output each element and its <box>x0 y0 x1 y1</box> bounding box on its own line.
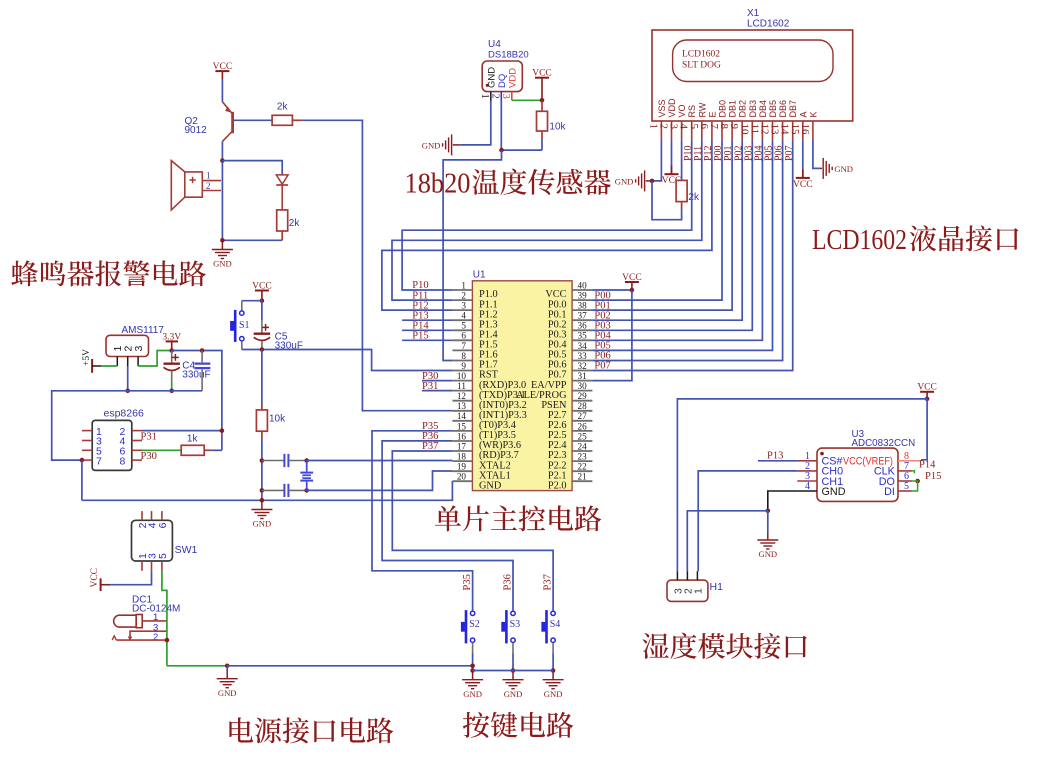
svg-text:GND: GND <box>213 259 232 269</box>
connector H1 box <box>667 580 708 601</box>
switch S4 <box>545 610 548 643</box>
wire GND rail (regulator) <box>52 391 202 460</box>
node ADC VCC junction <box>925 397 930 402</box>
connector DC1 barrel <box>114 615 137 627</box>
svg-text:2k: 2k <box>277 102 289 113</box>
U1 pin 10 stub <box>452 380 472 382</box>
svg-text:VCC: VCC <box>213 62 233 72</box>
svg-text:1k: 1k <box>187 434 199 445</box>
svg-text:S4: S4 <box>550 619 561 630</box>
U4 pin 3 stub <box>511 92 513 101</box>
title 按键电路 <box>463 712 490 738</box>
wire S2 to GND rail <box>472 643 474 654</box>
SW1 pin 2 stub (top) <box>141 511 143 520</box>
wire RST net to U1 pin 9 <box>242 350 453 371</box>
GND stem (U4) <box>453 144 459 146</box>
diode D1 <box>276 175 288 184</box>
svg-text:26: 26 <box>578 421 588 431</box>
svg-text:15: 15 <box>457 421 467 431</box>
node C4 GND junction <box>169 389 174 394</box>
svg-text:35: 35 <box>578 331 588 341</box>
node XTAL cap2 left junction <box>260 488 265 493</box>
svg-text:E: E <box>707 111 717 117</box>
svg-text:P14: P14 <box>919 460 936 471</box>
wire H1 pin2 to GND node <box>687 511 768 571</box>
svg-text:22: 22 <box>578 462 588 472</box>
wire R-2k bottom to GND rail <box>222 239 282 241</box>
U1 pin 14 stub <box>452 420 472 422</box>
wire U4 DQ down <box>500 101 502 150</box>
U1 pin 12 stub <box>452 400 472 402</box>
svg-text:2k: 2k <box>688 192 700 203</box>
U1 pin 8 stub <box>452 360 472 362</box>
wire Q2 collector down <box>221 141 223 160</box>
svg-text:GND: GND <box>504 689 523 699</box>
X1 pin 12 stub <box>772 121 774 140</box>
U1 pin 17 stub <box>452 450 472 452</box>
switch S2 <box>465 610 468 643</box>
svg-text:20: 20 <box>457 472 467 482</box>
ground GND (ADC) <box>767 531 769 540</box>
wire esp pin 7 to GND rail <box>81 460 83 500</box>
resistor 1k <box>180 449 182 451</box>
svg-text:GND: GND <box>463 689 482 699</box>
DC1 pin 1 stub <box>142 620 166 622</box>
X1 pin 16 stub <box>812 121 814 140</box>
power symbol VCC (ADC) <box>920 391 934 393</box>
svg-text:LCD1602: LCD1602 <box>747 19 790 30</box>
svg-text:LCD1602: LCD1602 <box>682 50 720 60</box>
wire pin 3 to 3.3V node <box>138 351 172 367</box>
node LCD VSS junction <box>650 179 655 184</box>
AMS1117 pin 1 stub <box>116 357 118 367</box>
svg-text:VCC: VCC <box>532 69 552 79</box>
U1 pin 33 stub <box>572 360 592 362</box>
power symbol VCC (rotated, SW1) <box>100 578 102 591</box>
svg-text:32: 32 <box>578 361 588 371</box>
svg-text:3.3V: 3.3V <box>162 332 181 342</box>
svg-text:33: 33 <box>578 351 588 361</box>
wire CLK green stub <box>912 471 915 474</box>
wire U3 GND down <box>768 491 798 511</box>
esp8266 pin 6 stub <box>132 449 142 451</box>
U3 pin 5 stub <box>898 490 912 492</box>
svg-text:2k: 2k <box>289 218 301 229</box>
svg-text:VSS: VSS <box>657 99 667 117</box>
esp8266 pin 3 stub <box>82 440 92 442</box>
wire P12 LCD to U1 <box>382 140 712 310</box>
wire X1 A to VCC <box>802 140 804 178</box>
svg-text:H1: H1 <box>710 581 724 593</box>
node DQ junction <box>499 148 504 153</box>
svg-text:VCC: VCC <box>622 273 642 283</box>
svg-text:DQ: DQ <box>497 74 508 88</box>
wire CH0 to H1 pin1 <box>698 471 797 571</box>
svg-text:2: 2 <box>461 291 466 301</box>
U3 pin1 indicator dot <box>820 452 824 456</box>
svg-text:S2: S2 <box>469 619 480 630</box>
svg-text:LCD1602: LCD1602 <box>812 225 907 256</box>
U3 pin 1 stub <box>797 460 817 462</box>
svg-text:P37: P37 <box>422 441 438 452</box>
U1 pin 39 stub <box>572 299 592 301</box>
SW1 pin 4 stub (top) <box>151 511 153 520</box>
wire esp pin 6 to 1k <box>142 449 181 451</box>
U1 pin 26 stub <box>572 430 592 432</box>
svg-text:GND: GND <box>544 689 563 699</box>
svg-text:GND: GND <box>758 549 777 559</box>
wire P02 U1 to LCD <box>592 140 742 320</box>
svg-text:RS: RS <box>687 105 697 118</box>
SW1 pin 5 stub (bottom) <box>161 561 163 571</box>
capacitor ceramic (3.3V decoupling) <box>201 351 203 363</box>
svg-text:9012: 9012 <box>185 125 208 136</box>
svg-text:K: K <box>808 111 818 117</box>
sensor U4 DS18B20 box <box>482 61 522 92</box>
svg-text:U1: U1 <box>473 270 486 281</box>
X1 pin 9 stub <box>741 121 743 140</box>
node U1 VCC junction <box>630 288 635 293</box>
wire GND rail (crystal) <box>82 481 453 500</box>
X1 pin 14 stub <box>792 121 794 140</box>
U1 pin 15 stub <box>452 430 472 432</box>
wire 3.3V rail to esp8266 <box>172 351 222 451</box>
svg-text:30: 30 <box>578 381 588 391</box>
node esp pin7 junction <box>80 458 85 463</box>
wire S4 to GND rail <box>552 643 554 654</box>
U1 pin 34 stub <box>572 349 592 351</box>
wire P00 U1 to LCD <box>592 140 722 300</box>
ground GND (S4) <box>552 671 554 680</box>
wire pin 2 to GND rail <box>127 366 129 391</box>
wire P11 LCD to U1 <box>392 140 702 300</box>
power symbol 3.3V <box>171 341 173 350</box>
ground GND (LCD VSS, rotated) <box>644 170 646 191</box>
U3 pin 2 stub <box>797 470 817 472</box>
wire esp pin 2 to 3.3V <box>142 430 222 432</box>
wire X1 K to GND <box>813 140 820 168</box>
title 电源接口电路 <box>229 717 253 742</box>
svg-text:37: 37 <box>578 311 588 321</box>
wire XTAL1 to U1 pin 19 <box>307 471 453 490</box>
H1 pin 1 stub <box>696 571 698 580</box>
U1 pin 7 stub <box>452 349 472 351</box>
svg-text:VDD: VDD <box>667 98 677 118</box>
X1 pin 11 stub <box>761 121 763 140</box>
svg-text:GND: GND <box>479 480 502 491</box>
node crystal GND junction <box>260 498 265 503</box>
svg-text:16: 16 <box>457 431 467 441</box>
X1 pin 4 stub <box>691 121 693 140</box>
ground GND (S3) <box>512 671 514 680</box>
capacitor XC1 (XTAL load) <box>262 460 284 462</box>
U1 pin 40 stub <box>572 289 592 291</box>
ground GND (crystal) <box>261 500 263 509</box>
node S4 GND junction <box>551 668 556 673</box>
svg-text:7: 7 <box>96 455 102 467</box>
U1 pin 19 stub <box>452 470 472 472</box>
power symbol VCC (reset) <box>255 290 269 292</box>
wire DQ to U1 P1.7 <box>443 150 501 360</box>
svg-text:VCC: VCC <box>252 281 272 291</box>
transistor Q2 9012 (PNP) <box>222 102 232 142</box>
wire 10k bottom to GND <box>261 440 263 500</box>
connector X1 LCD1602 box <box>652 30 853 121</box>
U1 pin 5 stub <box>452 329 472 331</box>
esp8266 pin 5 stub <box>82 449 92 451</box>
wire collector junction down to GND <box>221 161 223 241</box>
ground GND (S2) <box>472 671 474 680</box>
wire P13 to CS# <box>758 460 797 462</box>
node VDD pullup junction <box>540 98 545 103</box>
X1 pin 10 stub <box>751 121 753 140</box>
U4 pin1 indicator dot <box>486 84 489 87</box>
svg-text:P36: P36 <box>503 574 514 590</box>
speaker pin 2 stub <box>202 190 221 192</box>
svg-text:29: 29 <box>578 391 588 401</box>
node RST junction <box>260 347 265 352</box>
esp8266 pin 7 stub <box>82 459 92 461</box>
svg-text:18b20: 18b20 <box>405 169 471 200</box>
node ADC GND junction <box>766 509 771 514</box>
svg-text:5: 5 <box>461 321 466 331</box>
svg-text:DS18B20: DS18B20 <box>488 50 529 61</box>
svg-text:DB1: DB1 <box>728 100 738 118</box>
node crystal top junction <box>304 458 309 463</box>
svg-text:2: 2 <box>206 181 211 191</box>
svg-text:GND: GND <box>218 688 237 698</box>
ground GND (power) <box>226 666 228 670</box>
svg-text:GND: GND <box>486 67 497 88</box>
wire diode to R-2k <box>281 185 283 210</box>
svg-text:21: 21 <box>578 472 588 482</box>
svg-text:2: 2 <box>153 632 158 643</box>
U1 pin 20 stub <box>452 480 472 482</box>
U1 pin 24 stub <box>572 450 592 452</box>
svg-text:3: 3 <box>461 301 466 311</box>
svg-text:GND: GND <box>422 140 441 150</box>
svg-text:DB2: DB2 <box>738 100 748 118</box>
power symbol VCC (LCD VDD, inverted) <box>665 173 679 175</box>
capacitor XC2 (XTAL load) <box>262 489 284 491</box>
wire S3 to GND rail <box>512 643 514 654</box>
svg-text:6: 6 <box>461 331 466 341</box>
node crystal bottom junction <box>304 488 309 493</box>
wire P03 U1 to LCD <box>592 140 752 330</box>
wire R-2k to P3.3 net (vertical) <box>302 120 452 410</box>
U1 pin 31 stub <box>572 380 592 382</box>
wire X1 VDD down <box>671 140 673 174</box>
wire P06 U1 to LCD <box>592 140 782 360</box>
wire GND rail to buttons <box>227 665 472 667</box>
svg-text:330uF: 330uF <box>182 370 210 381</box>
wire sleeve to GND rail <box>167 665 227 667</box>
LCD screen rounded rect <box>673 40 833 82</box>
wire 2k to VSS GND <box>652 181 682 220</box>
power symbol VCC (U1) <box>625 281 639 283</box>
wire VCC to EA/VPP pin31 <box>592 290 632 381</box>
U1 pin 1 stub <box>452 289 472 291</box>
speaker LS1 <box>171 161 202 210</box>
U3 pin 7 stub <box>898 470 912 472</box>
wire X1 VO down <box>681 140 683 179</box>
U3 pin 3 stub <box>797 480 817 482</box>
svg-text:9: 9 <box>461 361 466 371</box>
svg-text:8: 8 <box>120 455 126 467</box>
module esp8266 box <box>92 420 132 470</box>
esp8266 pin 4 stub <box>132 440 142 442</box>
wire VCC to Q2 emitter <box>221 80 223 102</box>
wire 1k to 3.3V branch <box>211 449 222 451</box>
svg-text:5: 5 <box>157 553 169 559</box>
U1 pin 11 stub <box>452 390 472 392</box>
svg-text:12: 12 <box>457 391 467 401</box>
wire net stub U1 pin 5 <box>402 329 452 331</box>
SW1 pin 6 stub (top) <box>161 511 163 520</box>
wire net stub U1 pin 4 <box>402 319 452 321</box>
svg-text:DB4: DB4 <box>758 100 768 118</box>
U1 pin 18 stub <box>452 460 472 462</box>
regulator U2 AMS1117 box <box>106 335 149 356</box>
svg-text:RW: RW <box>697 102 707 117</box>
wire P36 net from U1 to button <box>382 441 513 611</box>
SW1 pin 3 stub (bottom) <box>151 561 153 571</box>
U1 pin 27 stub <box>572 420 592 422</box>
ground GND (buzzer) <box>221 240 223 249</box>
wire VCC rail to H1 pin3 <box>677 399 927 571</box>
wire SW1 pin3 to VCC <box>110 571 152 585</box>
resistor 2k (base) <box>271 119 273 121</box>
svg-text:P30: P30 <box>141 451 157 462</box>
X1 pin 8 stub <box>731 121 733 140</box>
svg-text:P35: P35 <box>462 574 473 590</box>
resistor 2k (buzzer damper) <box>281 209 283 211</box>
svg-text:19: 19 <box>457 462 467 472</box>
svg-text:39: 39 <box>578 291 588 301</box>
node DC1 sleeve junction <box>165 638 170 643</box>
svg-text:S1: S1 <box>239 320 250 331</box>
wire VCC node to S1 <box>242 300 262 302</box>
svg-text:34: 34 <box>578 341 588 351</box>
node S2 GND junction <box>470 668 475 673</box>
svg-text:27: 27 <box>578 411 588 421</box>
capacitor C5 330uF <box>261 301 263 321</box>
U1 pin 38 stub <box>572 309 592 311</box>
svg-text:14: 14 <box>457 411 467 421</box>
X1 pin 15 stub <box>802 121 804 140</box>
svg-text:P37: P37 <box>543 574 554 590</box>
title 湿度模块接口 <box>642 633 668 659</box>
U1 pin 28 stub <box>572 410 592 412</box>
svg-text:VCC: VCC <box>90 568 100 588</box>
U1 pin 6 stub <box>452 339 472 341</box>
U1 pin 35 stub <box>572 339 592 341</box>
svg-text:17: 17 <box>457 441 467 451</box>
svg-text:X1: X1 <box>747 8 760 19</box>
U1 pin 16 stub <box>452 440 472 442</box>
U1 pin 9 stub <box>452 370 472 372</box>
wire net stub U1 pin 10 <box>422 380 452 382</box>
svg-text:36: 36 <box>578 321 588 331</box>
wire button GND rail <box>473 670 553 672</box>
wire P37 net from U1 to button <box>392 451 553 610</box>
esp8266 pin 1 stub <box>82 430 92 432</box>
U1 pin 13 stub <box>452 410 472 412</box>
node S3 GND junction <box>511 668 516 673</box>
svg-text:4: 4 <box>461 311 466 321</box>
switch S3 <box>505 610 508 643</box>
node 3.3V junction <box>169 348 174 353</box>
svg-text:DI: DI <box>884 486 895 498</box>
svg-text:7: 7 <box>461 341 466 351</box>
switch SW1 box <box>132 520 173 561</box>
wire U4 VDD to VCC node <box>512 99 542 101</box>
ground GND (U4, rotated) <box>451 134 453 155</box>
svg-text:A: A <box>798 111 808 117</box>
X1 pin 3 stub <box>681 121 683 140</box>
U1 pin 4 stub <box>452 319 472 321</box>
svg-text:U4: U4 <box>488 39 501 50</box>
SW1 pin 1 stub (bottom) <box>141 561 143 571</box>
svg-text:38: 38 <box>578 301 588 311</box>
wire 10k to DQ node <box>541 140 543 150</box>
esp8266 pin 2 stub <box>132 430 142 432</box>
node S2 rail junction <box>470 664 475 669</box>
resistor 10k (DQ pullup) <box>541 100 543 111</box>
svg-text:6: 6 <box>157 522 169 528</box>
svg-text:8: 8 <box>461 351 466 361</box>
node DO junction <box>915 479 920 484</box>
svg-text:31: 31 <box>578 371 588 381</box>
wire VSS GND stem <box>646 180 652 182</box>
wire RST node to 10k <box>261 350 263 404</box>
wire P35 net from U1 to button <box>372 431 473 611</box>
svg-text:SLT DOG: SLT DOG <box>682 61 721 71</box>
X1 pin 5 stub <box>701 121 703 140</box>
ground GND (LCD K, rotated) <box>822 158 824 179</box>
node VCC reset junction <box>260 298 265 303</box>
svg-text:1: 1 <box>479 94 490 99</box>
wire net stub U1 pin 6 <box>402 339 452 341</box>
crystal Y1 <box>306 461 308 472</box>
wire U1 pin40 to VCC <box>592 289 632 291</box>
svg-text:1: 1 <box>461 280 466 290</box>
U1 pin 30 stub <box>572 390 592 392</box>
U1 pin 25 stub <box>572 440 592 442</box>
AMS1117 pin 2 stub <box>127 357 129 367</box>
svg-text:25: 25 <box>578 431 588 441</box>
wire collector to diode branch <box>222 161 282 175</box>
power symbol VCC (LCD A, inverted) <box>796 177 810 179</box>
svg-text:P31: P31 <box>141 431 157 442</box>
X1 pin 6 stub <box>711 121 713 140</box>
AMS1117 pin 3 stub <box>137 357 139 367</box>
U3 pin 6 stub <box>898 480 912 482</box>
svg-text:esp8266: esp8266 <box>104 408 144 420</box>
wire P10 LCD to U1 <box>402 140 692 290</box>
wire GND node down <box>767 511 769 531</box>
svg-text:10k: 10k <box>549 122 566 133</box>
X1 pin 13 stub <box>782 121 784 140</box>
svg-text:13: 13 <box>457 401 467 411</box>
H1 pin 3 stub <box>676 571 678 580</box>
node power GND junction <box>225 664 230 669</box>
wire +5V to pin 1 <box>101 365 117 367</box>
svg-text:P2.0: P2.0 <box>548 480 567 491</box>
svg-text:16: 16 <box>799 124 811 136</box>
U1 pin 23 stub <box>572 460 592 462</box>
U4 pin 1 stub <box>490 92 492 101</box>
